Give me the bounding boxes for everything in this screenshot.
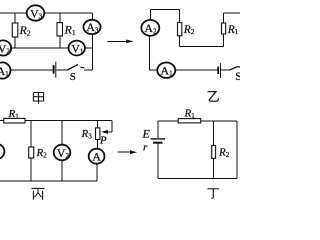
- wire: V2 branch top: [61, 121, 63, 145]
- wire: top rail left segment to V3: [0, 12, 27, 14]
- wire: bottom rail: [158, 178, 237, 180]
- ammeter A1 (yi): [157, 62, 175, 77]
- resistor R1: [57, 23, 63, 36]
- svg-text:R2: R2: [36, 147, 48, 160]
- svg-text:E: E: [142, 127, 151, 141]
- wire: bottom link R2-R1: [180, 46, 224, 48]
- wire: top rail V3 to right rail: [44, 12, 92, 14]
- resistor R2 (ding, vertical): [212, 145, 216, 158]
- wire: R3 to ammeter A: [97, 140, 99, 149]
- switch S contact: [81, 66, 85, 69]
- voltmeter V2 (cut at left edge): [0, 40, 11, 55]
- switch lever (yi): [229, 67, 240, 70]
- svg-text:R1: R1: [8, 108, 20, 121]
- wire: top rail left to R1: [0, 120, 4, 122]
- voltmeter V1: [69, 41, 85, 56]
- wire: R2 bottom drop: [14, 37, 16, 48]
- wire: middle rail V2 to V1: [12, 47, 69, 49]
- resistor R1 (bing, horizontal): [4, 118, 25, 123]
- ammeter A3: [83, 20, 100, 35]
- wire: right rail A3 to switch corner: [91, 34, 93, 70]
- wire: top rail right of R1: [201, 120, 237, 122]
- wire: bottom rail: [0, 180, 97, 182]
- resistor R2 (yi): [178, 23, 182, 36]
- wire: R2 branch top (ding): [213, 121, 215, 146]
- wire: left rail to battery: [157, 121, 159, 138]
- voltmeter V2 (bing): [54, 145, 71, 161]
- wire: A to bottom rail: [96, 164, 98, 181]
- wiper arrowhead: [101, 130, 108, 134]
- resistor R2: [12, 23, 17, 37]
- wire: R2 branch bottom (ding): [213, 158, 215, 178]
- wire: battery to switch: [221, 69, 229, 71]
- svg-text:R2: R2: [183, 24, 195, 36]
- svg-text:R1: R1: [184, 108, 196, 121]
- wire: top rail 2 to edge: [223, 12, 240, 14]
- wire: R2 to bottom link: [179, 36, 181, 47]
- resistor R1 (yi): [222, 23, 226, 34]
- ammeter A1 (cut at left edge): [0, 62, 11, 78]
- switch S lever: [67, 65, 78, 70]
- svg-text:A: A: [92, 150, 101, 164]
- wire: right rail top to A3: [91, 13, 93, 20]
- wire: R1 bottom drop: [59, 36, 61, 48]
- resistor R3 (bing, vertical): [96, 128, 100, 140]
- svg-text:S: S: [70, 71, 76, 83]
- wire: top rail left of R1: [158, 120, 178, 122]
- arrow bing->ding: [118, 150, 137, 154]
- label YI (Chinese): [208, 92, 219, 102]
- voltmeter V3: [27, 5, 45, 20]
- svg-text:R1: R1: [227, 24, 239, 36]
- svg-text:R1: R1: [64, 23, 76, 38]
- meter circle cut at left edge (bing): [0, 144, 4, 159]
- wire: R2 top drop: [14, 13, 16, 23]
- wire: battery to switch pivot: [56, 69, 67, 71]
- wire: bottom rail A1 to battery: [10, 69, 52, 71]
- battery plates (ding): [151, 139, 165, 143]
- ammeter A2: [141, 20, 159, 36]
- wire: R3 top drop: [97, 121, 99, 128]
- svg-text:R2: R2: [218, 147, 230, 160]
- wire: top rail 1: [150, 9, 179, 11]
- label JIA (Chinese): [33, 93, 43, 104]
- label DING (Chinese): [208, 189, 220, 198]
- wire: wiper drop: [111, 121, 113, 132]
- resistor R2 (bing, vertical): [29, 147, 34, 158]
- wire: right rail: [236, 121, 238, 179]
- wiper arrow shaft: [104, 131, 112, 133]
- svg-text:S: S: [235, 69, 240, 83]
- wire: battery to bottom rail: [157, 143, 159, 178]
- label BING (Chinese): [32, 188, 45, 199]
- wire: R1 top drop: [59, 13, 61, 23]
- svg-text:r: r: [143, 142, 148, 154]
- wire: switch contact to right rail corner: [84, 69, 92, 71]
- wire: link up to R1: [222, 34, 224, 47]
- battery (yi): [218, 63, 220, 77]
- resistor R1 (ding, horizontal): [178, 119, 201, 123]
- ammeter A (bing): [89, 149, 105, 164]
- svg-text:R3: R3: [81, 128, 93, 141]
- wire: R2 branch bottom: [30, 158, 32, 181]
- wire: A2 up to top rail: [149, 10, 151, 21]
- wire: V1 to right rail: [85, 47, 93, 49]
- battery (jia): [54, 62, 56, 78]
- svg-text:P: P: [99, 135, 107, 147]
- wire: R1 up to top rail 2: [222, 13, 224, 23]
- wire: top rail R1 to wiper corner: [25, 120, 112, 122]
- wire: drop to R2: [179, 10, 181, 23]
- wire: R2 branch top: [30, 121, 32, 147]
- wire: A2 down to bottom rail: [150, 36, 158, 70]
- wire: A1 to battery: [175, 69, 217, 71]
- arrow jia->yi: [108, 40, 134, 44]
- svg-text:R2: R2: [19, 23, 31, 38]
- wire: V2 branch bottom: [61, 160, 63, 181]
